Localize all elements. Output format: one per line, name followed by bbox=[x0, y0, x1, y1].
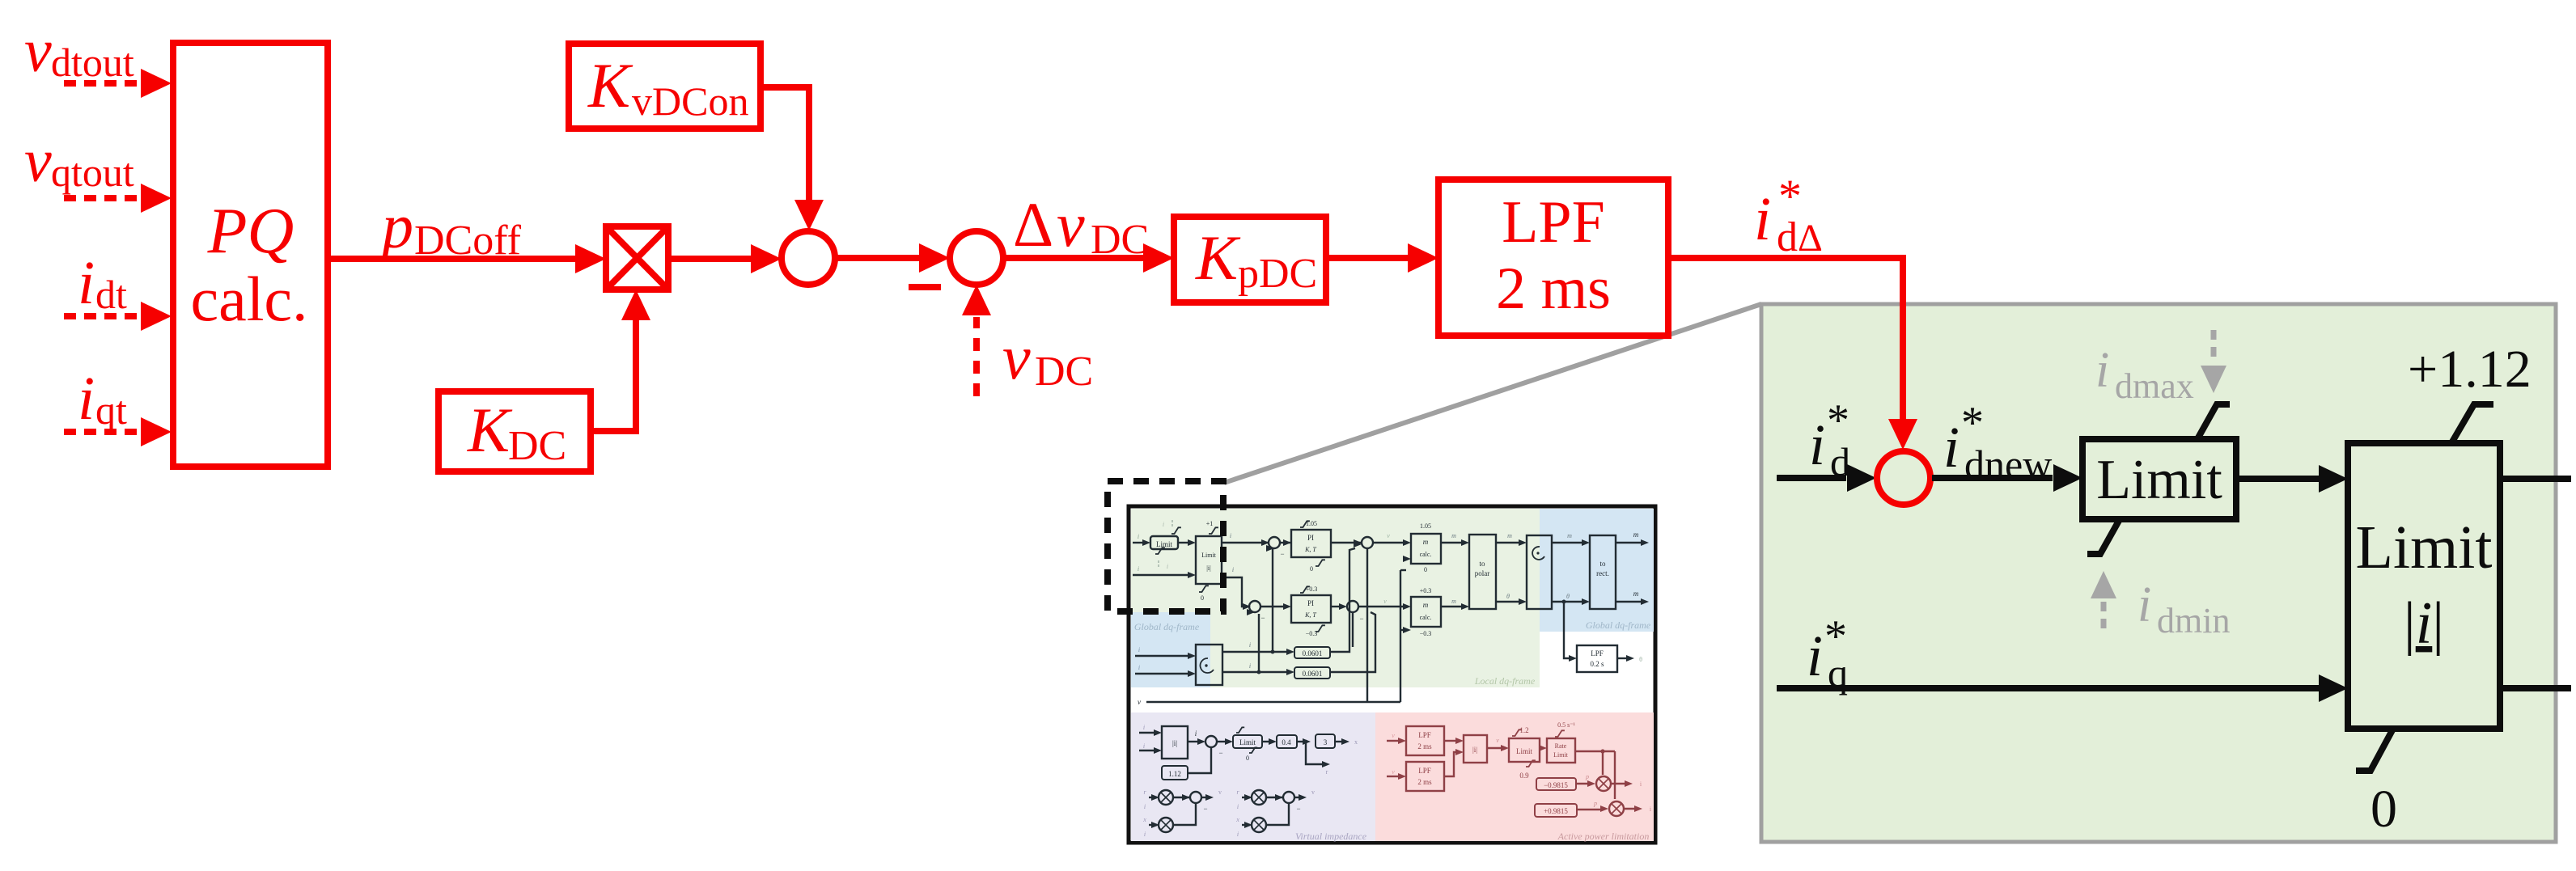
svg-text:+0.9815: +0.9815 bbox=[1544, 807, 1568, 815]
svg-text:pDC: pDC bbox=[1238, 251, 1317, 297]
output wire bottom bbox=[2500, 685, 2571, 691]
gain block K_pDC bbox=[1174, 217, 1326, 302]
svg-text:i: i bbox=[1232, 566, 1234, 573]
svg-text:0: 0 bbox=[1310, 565, 1313, 573]
thumb pink 0.9815 boxes bbox=[1536, 778, 1576, 790]
multiplier X1 bbox=[606, 226, 668, 290]
thumb pink abs box bbox=[1444, 740, 1457, 742]
svg-text:K: K bbox=[587, 50, 633, 121]
wire i_q into Limit2 bbox=[1777, 685, 2319, 691]
svg-text:Rate: Rate bbox=[1555, 742, 1567, 750]
svg-text:calc.: calc. bbox=[1420, 614, 1432, 621]
thumb PI box 1 bbox=[1280, 542, 1291, 543]
svg-text:LPF: LPF bbox=[1418, 767, 1431, 775]
dashed zoom rectangle bbox=[1108, 481, 1223, 611]
svg-text:Virtual impedance: Virtual impedance bbox=[1295, 831, 1367, 842]
wire LPF to red sum3 (corner) bbox=[1668, 258, 1903, 421]
block Limit2 |i| bbox=[2348, 443, 2500, 729]
svg-text:+1.12: +1.12 bbox=[2408, 340, 2532, 399]
limiter glyph top of Limit1 bbox=[2184, 404, 2230, 439]
thumbnail: overview schematic bbox=[1129, 506, 1655, 843]
wire sum3 to Limit1 bbox=[1932, 475, 2053, 481]
gain block K_DC bbox=[439, 391, 591, 471]
svg-text:Local dq-frame: Local dq-frame bbox=[1474, 675, 1536, 687]
svg-text:m: m bbox=[1633, 590, 1639, 598]
svg-text:polar: polar bbox=[1475, 569, 1490, 577]
thumb to-rect box bbox=[1552, 542, 1583, 543]
svg-text:−0.9815: −0.9815 bbox=[1544, 781, 1568, 789]
gray dashed arrow i_dmax bbox=[2211, 330, 2217, 361]
green zoom panel bbox=[1761, 304, 2556, 842]
svg-text:0: 0 bbox=[1246, 755, 1249, 762]
svg-text:Limit: Limit bbox=[2356, 514, 2493, 581]
svg-text:DCoff: DCoff bbox=[414, 218, 522, 264]
svg-text:v: v bbox=[24, 17, 52, 85]
svg-text:i: i bbox=[1943, 415, 1960, 480]
svg-text:dnew: dnew bbox=[1964, 442, 2052, 487]
svg-text:DC: DC bbox=[1035, 349, 1093, 395]
svg-text:−: − bbox=[1280, 550, 1284, 558]
svg-text:+1: +1 bbox=[1206, 520, 1214, 527]
svg-text:0: 0 bbox=[1201, 594, 1204, 602]
svg-text:Limit: Limit bbox=[1201, 552, 1217, 559]
svg-text:i: i bbox=[2095, 343, 2109, 398]
thumb sum1b + wire to m calc 1 bbox=[1331, 542, 1362, 543]
svg-text:−: − bbox=[1203, 805, 1207, 813]
thumb pink Limit box bbox=[1487, 747, 1502, 749]
svg-text:|i|: |i| bbox=[1206, 564, 1210, 572]
svg-text:θ: θ bbox=[1639, 656, 1642, 663]
svg-text:i: i bbox=[1144, 831, 1146, 838]
thumb pink multipliers bbox=[1575, 750, 1615, 752]
svg-text:Limit: Limit bbox=[1239, 738, 1256, 746]
svg-text:θ: θ bbox=[1566, 593, 1570, 600]
svg-text:PI: PI bbox=[1307, 599, 1314, 607]
svg-text:+0.3: +0.3 bbox=[1420, 587, 1432, 594]
block Limit1 bbox=[2082, 439, 2236, 519]
limiter glyph bottom of Limit2 bbox=[2356, 729, 2409, 771]
thumb pink Rate Limit box bbox=[1540, 747, 1540, 749]
svg-text:i: i bbox=[1143, 742, 1145, 750]
svg-text:m: m bbox=[1423, 601, 1429, 609]
svg-text:2 ms: 2 ms bbox=[1417, 778, 1432, 786]
svg-text:Δ: Δ bbox=[1013, 189, 1053, 260]
svg-text:i: i bbox=[1138, 646, 1140, 653]
svg-text:Active power limitation: Active power limitation bbox=[1557, 831, 1650, 842]
svg-text:K: K bbox=[1195, 222, 1241, 293]
svg-text:Limit: Limit bbox=[1516, 747, 1532, 755]
thumb to-polar box bbox=[1469, 535, 1496, 609]
thumb 1.12 box bbox=[1162, 766, 1188, 780]
summing node sum2 bbox=[950, 231, 1003, 285]
svg-text:0: 0 bbox=[2371, 780, 2397, 839]
svg-text:i: i bbox=[1138, 664, 1140, 671]
svg-text:LPF: LPF bbox=[1591, 649, 1604, 657]
thumbnail bg region blue left (global dq) bbox=[1131, 612, 1210, 687]
input arrow i_dt (dashed) bbox=[64, 313, 142, 319]
svg-text:i: i bbox=[1163, 521, 1164, 528]
svg-text:dmax: dmax bbox=[2115, 366, 2194, 406]
svg-text:K, T: K, T bbox=[1304, 546, 1316, 553]
svg-text:v: v bbox=[1392, 768, 1395, 776]
svg-text:−: − bbox=[1296, 805, 1300, 813]
svg-text:i: i bbox=[1249, 641, 1251, 649]
input v_DC dashed arrow bbox=[973, 317, 980, 396]
svg-text:K: K bbox=[467, 395, 513, 465]
svg-text:i: i bbox=[1144, 803, 1146, 810]
thumb big Limit |i| box bbox=[1196, 536, 1222, 584]
summing node sum3 (red) bbox=[1877, 451, 1930, 505]
thumb sum1 bbox=[1269, 537, 1280, 548]
callout line thumbnail to panel bbox=[1224, 304, 1761, 483]
svg-text:v: v bbox=[1218, 789, 1222, 796]
gray dashed arrow i_dmin bbox=[2101, 602, 2107, 630]
svg-text:i: i bbox=[1237, 803, 1239, 810]
svg-text:qt: qt bbox=[95, 387, 127, 433]
thumb 0.0601 boxes bbox=[1222, 651, 1288, 653]
svg-text:2 ms: 2 ms bbox=[1417, 742, 1432, 750]
wire sum1 to sum2 bbox=[835, 255, 919, 261]
thumb limit outputs bbox=[1222, 542, 1269, 543]
svg-text:DC: DC bbox=[508, 423, 566, 469]
svg-text:0.9: 0.9 bbox=[1519, 772, 1529, 780]
input arrow i_qt (dashed) bbox=[64, 429, 142, 435]
svg-text:DC: DC bbox=[1091, 217, 1149, 263]
input arrow v_qtout (dashed) bbox=[64, 195, 142, 201]
svg-text:p: p bbox=[378, 191, 413, 261]
svg-text:0: 0 bbox=[1424, 566, 1427, 573]
svg-text:i: i bbox=[1138, 565, 1139, 573]
svg-text:m: m bbox=[1633, 531, 1639, 539]
svg-text:Limit: Limit bbox=[1553, 751, 1569, 759]
svg-text:m: m bbox=[1423, 538, 1429, 546]
thumb vertical feedback lines bbox=[1366, 548, 1368, 702]
wire K_pDC to LPF bbox=[1326, 255, 1408, 261]
svg-text:PQ: PQ bbox=[207, 196, 294, 267]
thumbnail bg region blue top-right bbox=[1540, 509, 1654, 632]
block LPF 2ms bbox=[1438, 180, 1668, 336]
svg-text:2 ms: 2 ms bbox=[1496, 256, 1611, 322]
thumb purple Limit chain bbox=[1217, 741, 1227, 742]
thumbnail frame bbox=[1129, 506, 1655, 843]
limiter glyph bottom of Limit1 bbox=[2087, 519, 2133, 554]
minus sign at sum2 bbox=[909, 284, 941, 290]
svg-text:v: v bbox=[1002, 322, 1031, 392]
wire Limit1 to Limit2 bbox=[2236, 476, 2319, 482]
thumbnail bg region pink (active power limitation) bbox=[1375, 712, 1654, 841]
svg-text:x: x bbox=[1354, 738, 1358, 746]
thumbnail bg region green (upper control) bbox=[1131, 509, 1540, 687]
svg-text:v: v bbox=[1387, 532, 1390, 539]
svg-text:p: p bbox=[1593, 800, 1597, 807]
svg-text:−: − bbox=[1260, 614, 1265, 622]
svg-text:m: m bbox=[1507, 532, 1512, 539]
thumb LPF 0.2s box bbox=[1564, 602, 1570, 658]
svg-text:dtout: dtout bbox=[51, 40, 134, 85]
svg-text:Global dq-frame: Global dq-frame bbox=[1134, 621, 1200, 632]
svg-text:v: v bbox=[1138, 698, 1141, 706]
thumb rotation box bbox=[1496, 542, 1520, 543]
svg-text:LPF: LPF bbox=[1418, 731, 1431, 739]
svg-text:i: i bbox=[1754, 185, 1771, 253]
limiter glyph top of Limit2 bbox=[2437, 404, 2493, 443]
svg-text:v: v bbox=[1057, 189, 1085, 260]
svg-text:0.4: 0.4 bbox=[1282, 738, 1291, 746]
svg-text:d: d bbox=[1777, 214, 1798, 260]
summing node sum1 bbox=[782, 231, 835, 285]
svg-text:dt: dt bbox=[95, 272, 127, 317]
svg-text:LPF: LPF bbox=[1502, 189, 1605, 256]
svg-text:x: x bbox=[1235, 816, 1239, 823]
thumb sum2 + PI2 bbox=[1249, 601, 1260, 612]
svg-text:v: v bbox=[24, 127, 52, 195]
svg-text:−: − bbox=[1218, 749, 1222, 757]
svg-text:i: i bbox=[1143, 724, 1145, 731]
svg-text:−0.3: −0.3 bbox=[1420, 630, 1432, 637]
svg-text:3: 3 bbox=[1324, 738, 1328, 746]
gain block K_vDCon bbox=[569, 44, 761, 129]
svg-text:i: i bbox=[78, 365, 95, 433]
wire K_vDCon to sum1 bbox=[761, 87, 809, 202]
svg-text:m: m bbox=[1451, 532, 1456, 539]
svg-text:Δ: Δ bbox=[1798, 217, 1823, 260]
wire i_d into sum3 bbox=[1777, 475, 1846, 481]
svg-text:0.5 s⁻¹: 0.5 s⁻¹ bbox=[1557, 721, 1575, 729]
svg-text:m: m bbox=[1567, 532, 1572, 539]
svg-text:m: m bbox=[1451, 598, 1456, 605]
svg-text:Global dq-frame: Global dq-frame bbox=[1586, 619, 1651, 631]
svg-text:0.2 s: 0.2 s bbox=[1590, 660, 1604, 668]
input arrow v_dtout (dashed) bbox=[64, 80, 142, 87]
svg-text:i: i bbox=[1237, 831, 1239, 838]
svg-text:dmin: dmin bbox=[2157, 601, 2230, 641]
svg-text:to: to bbox=[1479, 560, 1485, 568]
thumb m calc box 1 bbox=[1411, 534, 1441, 564]
svg-text:i: i bbox=[78, 249, 95, 317]
svg-text:v: v bbox=[1311, 789, 1315, 796]
svg-text:0.0601: 0.0601 bbox=[1303, 649, 1323, 657]
wire p_DCoff PQ to multiplier bbox=[328, 256, 575, 262]
svg-text:v: v bbox=[1496, 737, 1499, 744]
svg-text:Limit: Limit bbox=[2096, 449, 2222, 511]
svg-text:*: * bbox=[1961, 398, 1984, 448]
thumb theta chain lower bbox=[1496, 601, 1520, 603]
svg-text:i: i bbox=[1807, 624, 1823, 688]
svg-text:|i|: |i| bbox=[1472, 746, 1477, 754]
wire K_DC to multiplier bbox=[591, 317, 636, 431]
svg-text:calc.: calc. bbox=[190, 264, 307, 334]
block PQ calc. bbox=[173, 43, 328, 467]
svg-text:1.2: 1.2 bbox=[1519, 726, 1528, 734]
svg-text:i: i bbox=[1138, 533, 1139, 540]
svg-text:i: i bbox=[2137, 577, 2151, 632]
thumb m calc box 2 bbox=[1411, 597, 1441, 627]
svg-text:x: x bbox=[1142, 816, 1146, 823]
svg-text:0.0601: 0.0601 bbox=[1303, 670, 1323, 678]
svg-text:i: i bbox=[1167, 563, 1168, 570]
svg-text:qtout: qtout bbox=[51, 150, 134, 195]
svg-text:i: i bbox=[1249, 662, 1251, 670]
svg-text:i: i bbox=[1230, 532, 1231, 539]
svg-text:vDCon: vDCon bbox=[632, 78, 748, 124]
svg-text:*: * bbox=[1827, 395, 1849, 446]
svg-text:v: v bbox=[1392, 732, 1395, 739]
svg-text:calc.: calc. bbox=[1420, 551, 1432, 558]
svg-text:−: − bbox=[1359, 615, 1363, 623]
svg-text:PI: PI bbox=[1307, 534, 1314, 542]
svg-text:1.12: 1.12 bbox=[1168, 770, 1181, 778]
wire multiplier to sum1 bbox=[668, 256, 751, 262]
svg-text:p: p bbox=[1585, 773, 1589, 780]
svg-text:to: to bbox=[1599, 560, 1606, 568]
svg-text:i: i bbox=[1809, 412, 1825, 477]
svg-text:r: r bbox=[1326, 768, 1328, 776]
output wire top bbox=[2500, 476, 2571, 482]
thumbnail bg region purple (virtual impedance) bbox=[1131, 712, 1375, 841]
svg-text:1.05: 1.05 bbox=[1420, 522, 1431, 530]
svg-text:|i|: |i| bbox=[1172, 739, 1177, 747]
svg-text:K, T: K, T bbox=[1304, 611, 1316, 619]
svg-text:|i|: |i| bbox=[2404, 590, 2444, 657]
svg-text:rect.: rect. bbox=[1596, 569, 1609, 577]
wire sum2 to K_pDC bbox=[1003, 255, 1143, 261]
svg-text:θ: θ bbox=[1506, 593, 1510, 600]
svg-text:v: v bbox=[1383, 598, 1387, 605]
thumb 0.0601 feedback wires bbox=[1330, 548, 1355, 652]
